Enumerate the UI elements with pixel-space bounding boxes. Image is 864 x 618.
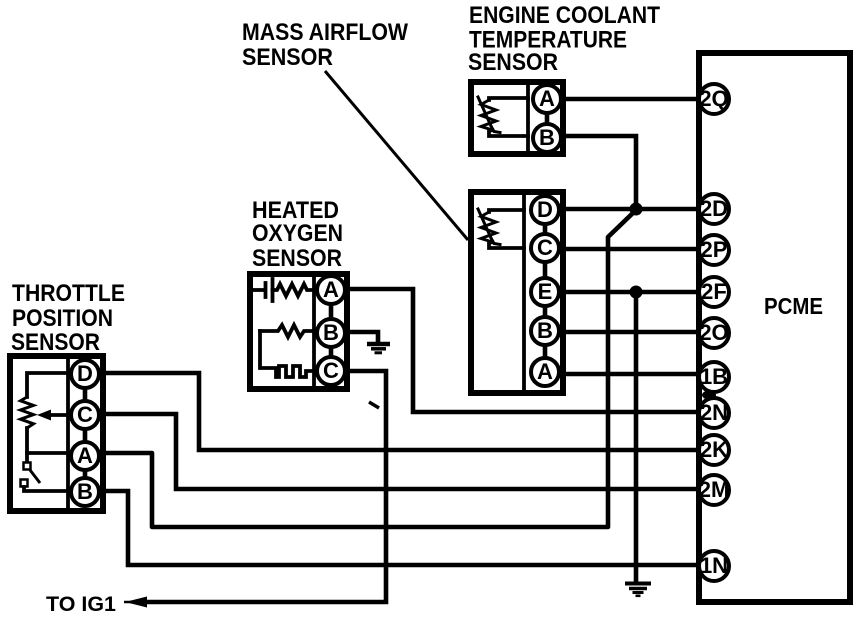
svg-text:SENSOR: SENSOR: [242, 44, 333, 71]
svg-text:A: A: [537, 359, 553, 384]
PCME control unit box: [699, 53, 850, 602]
svg-text:ENGINE COOLANT: ENGINE COOLANT: [469, 2, 660, 29]
TPS wiper arrow: [37, 410, 68, 421]
svg-text:B: B: [77, 479, 93, 504]
wire: MAF pin E to PCME 2F: [562, 290, 700, 295]
mass airflow sensor box: [471, 192, 563, 393]
ink blob between PCME pins 1B and 2N: [702, 391, 716, 400]
MAF pin E: [531, 278, 559, 306]
wire: ECT pin B right then down to junction on 2D line: [562, 136, 636, 209]
HO2S pin A: [317, 276, 345, 304]
node: junction dot on 2D line: [630, 203, 643, 216]
wire: TPS pin D right, down, to PCME 2K: [101, 373, 700, 450]
svg-text:C: C: [77, 402, 93, 427]
svg-text:A: A: [77, 443, 93, 468]
ECT thermistor element: [478, 97, 528, 136]
svg-text:TO IG1: TO IG1: [46, 593, 116, 616]
MAF thermistor element: [478, 209, 524, 248]
PCME pin 1N: [699, 551, 729, 581]
MAF pin C: [531, 234, 559, 262]
wire: ECT pin A to PCME 2Q: [562, 97, 700, 102]
connector stub between ECT pins A and B: [545, 112, 550, 125]
wire: sensor ground bus down, left along y=527, up to TPS pin A: [101, 211, 635, 527]
wire: MAF pin B to PCME 2O: [562, 330, 700, 335]
label and arrow: TO IG1: [46, 593, 147, 616]
ECT pin B: [533, 124, 561, 152]
PCME pin 2P: [699, 235, 729, 265]
svg-text:D: D: [537, 197, 553, 222]
svg-text:D: D: [77, 361, 93, 386]
PCME pin 2N: [699, 398, 729, 428]
svg-text:B: B: [539, 125, 555, 150]
ECT pin A: [533, 85, 561, 113]
PCME pin 2D: [699, 194, 729, 224]
TPS idle switch: [21, 463, 69, 492]
TPS potentiometer resistor: [21, 373, 69, 464]
svg-text:2N: 2N: [700, 400, 728, 425]
svg-text:MASS AIRFLOW: MASS AIRFLOW: [242, 19, 408, 46]
wire: MAF pin A to PCME 1B: [562, 372, 700, 377]
svg-text:E: E: [538, 279, 553, 304]
svg-text:2Q: 2Q: [699, 86, 728, 111]
TPS pin A: [71, 442, 99, 470]
label: MASS AIRFLOW SENSOR: [242, 19, 408, 71]
TPS pin C: [71, 401, 99, 429]
svg-text:B: B: [323, 320, 339, 345]
stray tick mark artifact: [369, 402, 379, 408]
svg-text:2P: 2P: [701, 237, 728, 262]
svg-text:THROTTLE: THROTTLE: [12, 280, 125, 307]
heated oxygen sensor box: [250, 274, 347, 389]
HO2S heater element (row C): [260, 331, 314, 377]
PCME pin 2O: [699, 318, 729, 348]
MAF pin B: [531, 317, 559, 345]
PCME pin 2Q: [699, 84, 729, 114]
svg-text:2F: 2F: [701, 279, 727, 304]
leader line from MASS AIRFLOW SENSOR label to sensor box: [325, 71, 468, 240]
HO2S pin B: [317, 319, 345, 347]
connector stubs between TPS pins: [83, 387, 88, 479]
wire: TPS pin B right, down, to PCME 1N: [101, 491, 700, 565]
wire: TPS pin C right, down, to PCME 2M: [101, 414, 700, 489]
node: junction dot on 2F line: [630, 286, 643, 299]
svg-text:POSITION: POSITION: [12, 305, 113, 332]
svg-text:SENSOR: SENSOR: [252, 245, 342, 272]
engine coolant temperature sensor box: [471, 82, 563, 154]
svg-text:1B: 1B: [700, 364, 728, 389]
MAF pin A: [531, 358, 559, 386]
TPS pin B: [71, 478, 99, 506]
wire: MAF pin D to PCME 2D: [562, 207, 700, 212]
svg-text:SENSOR: SENSOR: [11, 329, 100, 356]
PCME pin 2K: [699, 435, 729, 465]
svg-text:2O: 2O: [699, 320, 728, 345]
wire: MAF pin C to PCME 2P: [562, 247, 700, 252]
svg-text:A: A: [323, 277, 339, 302]
MAF pin D: [531, 196, 559, 224]
wire: ground drop from 2F junction to ground symbol: [634, 292, 639, 582]
connector stubs between HO2S pins: [329, 303, 334, 358]
svg-text:C: C: [323, 358, 339, 383]
label: HEATED OXYGEN SENSOR: [252, 197, 343, 272]
HO2S sensing cell and resistor (row A): [252, 279, 314, 301]
wire: HO2S pin C right, down, left to TO IG1: [146, 371, 386, 602]
TPS pin D: [71, 360, 99, 388]
wire: HO2S pin A right, down, to PCME 2N: [346, 289, 700, 412]
HO2S pin C: [317, 357, 345, 385]
svg-text:OXYGEN: OXYGEN: [252, 220, 343, 247]
svg-text:C: C: [537, 235, 553, 260]
wire: HO2S pin B to ground: [346, 332, 378, 342]
ground symbol at bottom center: [625, 584, 651, 596]
svg-text:PCME: PCME: [764, 293, 823, 319]
PCME pin 2M: [699, 475, 730, 505]
svg-text:A: A: [539, 86, 555, 111]
svg-text:2K: 2K: [700, 437, 728, 462]
svg-text:SENSOR: SENSOR: [468, 49, 558, 76]
label: ENGINE COOLANT TEMPERATURE SENSOR: [468, 2, 660, 76]
svg-text:2M: 2M: [699, 477, 730, 502]
svg-text:B: B: [537, 318, 553, 343]
svg-text:2D: 2D: [700, 196, 728, 221]
HO2S resistor (row B): [260, 325, 314, 337]
throttle position sensor box: [10, 356, 103, 511]
PCME pin 2F: [699, 277, 729, 307]
PCME pin 1B: [699, 362, 729, 392]
svg-text:1N: 1N: [700, 553, 728, 578]
ground symbol near heated oxygen sensor: [367, 344, 390, 353]
connector stubs between MAF pins: [543, 223, 548, 359]
label: THROTTLE POSITION SENSOR: [11, 280, 125, 356]
